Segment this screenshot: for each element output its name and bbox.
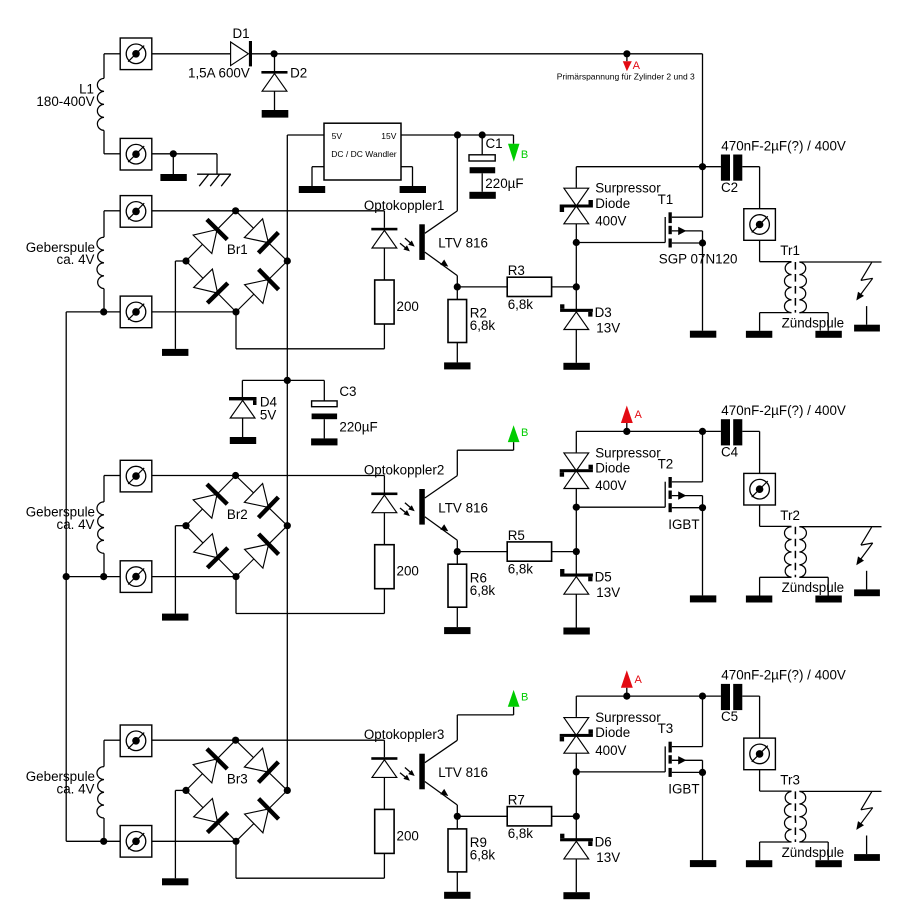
wire R5 right [552,551,577,553]
wire D2 to ground [274,91,276,110]
wire emitter T2 to ground [702,508,704,596]
svg-text:ca. 4V: ca. 4V [57,517,95,532]
connector L1 bottom [120,138,152,170]
transformer Tr1 secondary [799,262,806,313]
ground D3 [563,363,589,370]
svg-text:400V: 400V [595,213,626,228]
label D3 13V [595,305,621,336]
junction L1 ground [170,150,177,157]
wire Br3 bottom node to resistor 200 [236,841,384,878]
svg-text:D1: D1 [233,26,250,41]
node A marker [621,406,643,432]
svg-text:Br3: Br3 [227,772,248,787]
junction emitter T1 [699,239,706,246]
wire Tr3 primary to ground [760,842,792,860]
wire rail to D4 [242,380,287,397]
IGBT T2 [665,477,702,512]
DC/DC converter U1 [324,123,401,180]
LED Optokoppler2 [371,493,397,496]
wire D5 to ground [575,594,577,627]
svg-text:T1: T1 [658,192,674,207]
transformer Tr2 primary [784,527,791,578]
wire C4 to connector [742,431,759,473]
svg-text:6,8k: 6,8k [508,297,534,312]
wire gate T2 [576,506,665,508]
inductor L1 [97,78,104,130]
capacitor C4 [721,419,742,445]
wire rail to DC/DC [287,134,324,136]
wire C5 to connector [742,696,759,738]
wire drain T2 [702,431,704,482]
wire drain T3 [702,696,704,747]
wire node C4 [576,430,721,432]
wire rail to C3 [287,380,324,401]
wire Geberspule Br2 bottom lead [103,553,105,576]
ground Br3 minus [162,878,188,885]
wire Tr1 secondary top [799,261,881,263]
wire LED cathode Optokoppler3 [383,777,385,809]
label C3 220µF [339,384,377,434]
wire connector to D1 [152,53,231,55]
wire emitter Optokoppler1 [425,252,458,287]
svg-text:200: 200 [397,299,419,314]
label 470nF C5 [721,668,846,725]
wire Geberspule Br1 top-left [104,211,120,237]
svg-text:Primärspannung für Zylinder 2: Primärspannung für Zylinder 2 und 3 [557,72,695,82]
suppressor diode [564,718,589,736]
label 470nF C4 [721,403,846,460]
svg-text:ca. 4V: ca. 4V [57,782,95,797]
wire rail D3 [575,287,577,310]
wire rail D5 [575,552,577,575]
svg-text:Br2: Br2 [227,507,248,522]
phototransistor Optokoppler2 [419,489,425,525]
transformer Tr3 core [794,791,796,842]
wire gate T1 [576,242,665,244]
junction 15V collector [454,131,461,138]
wire LED lead Optokoppler3 [383,740,385,757]
svg-text:5V: 5V [332,131,343,141]
junction emitter Optokoppler2 [454,548,461,555]
transformer Tr3 primary [784,791,791,842]
resistor 200 Optokoppler2 [375,545,394,589]
ground Tr2 primary [746,596,772,603]
svg-text:C3: C3 [339,384,356,399]
svg-text:D3: D3 [595,305,612,320]
wire L1 top-left [104,54,120,79]
label L1 180-400V [36,81,94,108]
connector Br3 top [120,725,152,757]
wire Geberspule Br3 bottom lead [103,818,105,841]
svg-text:200: 200 [397,828,419,843]
label Surpressor Diode 400V [595,710,661,758]
spark symbol [856,527,872,565]
transformer Tr2 secondary [799,527,806,578]
ground Tr1 secondary [815,331,841,338]
label R2 6,8k [470,306,496,334]
ground Tr1 primary [746,331,772,338]
wire connector to Tr1 [760,240,792,261]
capacitor C1 [469,135,495,192]
svg-text:Surpressor: Surpressor [595,710,661,725]
svg-text:Tr3: Tr3 [780,773,800,788]
wire 15V output [401,134,514,136]
svg-text:400V: 400V [595,743,626,758]
capacitor C2 [721,155,742,181]
junction drain C4 [699,428,706,435]
connector Br2 bottom [120,561,152,593]
label R6 6,8k [470,570,496,598]
svg-text:LTV 816: LTV 816 [438,765,488,780]
wire drain T1 [702,167,704,218]
svg-text:5V: 5V [260,408,276,423]
connector Tr3 [744,738,776,770]
label C1 220µF [485,136,523,191]
wire Tr3 secondary to ground [799,842,828,860]
svg-text:200: 200 [397,564,419,579]
svg-text:C2: C2 [721,180,738,195]
wire LED lead Optokoppler2 [383,476,385,493]
junction Geberspule Br2 bottom [100,573,107,580]
label D5 13V [595,570,621,601]
diode D1 [231,41,252,66]
labels DC/DC [331,131,397,159]
svg-text:Diode: Diode [595,196,630,211]
node B marker [508,425,529,442]
svg-text:Optokoppler2: Optokoppler2 [364,463,444,478]
svg-text:6,8k: 6,8k [470,318,496,333]
svg-text:6,8k: 6,8k [470,583,496,598]
svg-text:Surpressor: Surpressor [595,181,661,196]
ground T2 [690,595,716,602]
junction node A [623,693,630,700]
svg-text:C1: C1 [486,136,503,151]
junction node A [623,428,630,435]
wire DC/DC left leg [312,167,324,186]
wire LED anode Optokoppler3 [236,739,385,741]
svg-text:R7: R7 [508,793,525,808]
node B marker row1 [508,135,528,162]
label R7 6,8k [508,793,534,842]
ground Tr3 secondary [815,860,841,867]
junction drain C2 [699,163,706,170]
IGBT T3 [665,742,702,777]
wire node C2 [576,166,721,168]
svg-text:IGBT: IGBT [668,782,699,797]
ground D6 [563,892,589,899]
ground D5 [563,628,589,635]
suppressor diode [564,188,589,206]
svg-text:Surpressor: Surpressor [595,445,661,460]
wire Br1 minus to ground [175,261,186,349]
diode D2 [261,71,287,74]
wire Br1 input bottom [152,311,236,313]
wire D6 to ground [575,859,577,892]
svg-text:180-400V: 180-400V [36,94,94,109]
ground D4 [230,437,256,444]
label D6 13V [595,834,621,865]
svg-text:13V: 13V [596,850,620,865]
svg-text:Optokoppler3: Optokoppler3 [364,727,444,742]
svg-text:400V: 400V [595,478,626,493]
resistor R5 [507,542,551,561]
wire spark gap to ground [866,571,868,590]
wire collector to node B [457,707,513,741]
wire Tr1 secondary to ground [799,313,828,331]
label Geberspule Br1 [26,240,95,267]
wire D4 to ground [242,418,244,437]
wire Geberspule Br2 top-left [104,476,120,502]
ground T3 [690,860,716,867]
ground L1 [160,174,186,181]
resistor R2 [448,287,467,363]
label R5 6,8k [508,528,534,577]
junction Br1 nodes [182,207,291,315]
bridge rectifier Br2 [186,476,287,577]
wire emitter Optokoppler3 [425,782,458,817]
svg-text:B: B [521,149,528,161]
wire junction to ground [172,154,174,174]
transformer Tr1 core [794,262,796,313]
label Geberspule Br3 [26,769,95,796]
ground R9 [444,892,470,899]
inductor Geberspule Br1 [97,237,104,288]
wire suppressor rail [575,167,577,287]
junction rail D4-C3 [284,377,291,384]
svg-text:15V: 15V [381,131,396,141]
junction Geberspule Br3 bottom [100,838,107,845]
bridge rectifier Br1 [186,211,287,312]
wire LED anode Optokoppler2 [236,475,385,477]
junction D1-D2 [271,50,278,57]
wire Br2 input top [152,475,236,477]
resistor R7 [507,807,551,826]
wire DC/DC right leg [401,167,413,186]
wire Br2 input bottom [152,576,236,578]
junction suppressor-gate [573,768,580,775]
svg-text:T2: T2 [658,457,674,472]
svg-text:A: A [633,60,641,72]
wire Tr2 primary to ground [760,577,792,595]
svg-text:R5: R5 [508,528,525,543]
svg-text:D2: D2 [290,66,307,81]
ground DC/DC right [400,186,426,193]
label Surpressor Diode 400V [595,445,661,493]
ground T1 [690,331,716,338]
wire 5V rail [286,135,288,791]
junction emitter T2 [699,504,706,511]
ground R2 [444,362,470,369]
ground spark gap [854,325,880,332]
bridge rectifier Br3 [186,740,287,841]
ground Tr2 secondary [815,596,841,603]
resistor R6 [448,552,467,628]
wire Tr1 primary to ground [760,313,792,331]
junction node A primary [623,50,630,57]
label R9 6,8k [470,835,496,863]
junction emitter Optokoppler3 [454,813,461,820]
light arrows [400,503,415,516]
wire emitter T1 to ground [702,243,704,331]
wire emitter T3 to ground [702,772,704,860]
connector Br1 top [120,196,152,228]
zener diode D4 [229,397,257,400]
svg-text:Zündspule: Zündspule [782,315,845,330]
wire suppressor rail [575,696,577,816]
connector Tr1 [744,209,776,241]
resistor 200 Optokoppler3 [375,809,394,853]
svg-text:ca. 4V: ca. 4V [57,252,95,267]
node A marker [621,670,643,696]
wire LED lead Optokoppler1 [383,211,385,228]
svg-text:Diode: Diode [595,461,630,476]
wire Br1 bottom node to resistor 200 [236,312,384,349]
wire D1 to top rail [252,53,703,55]
zener diode D6 [560,838,593,841]
wire LED cathode Optokoppler1 [383,248,385,280]
svg-text:B: B [521,427,528,439]
svg-text:Tr2: Tr2 [780,508,800,523]
wire R7 right [552,815,577,817]
ground Br2 minus [162,614,188,621]
phototransistor Optokoppler3 [419,754,425,790]
chassis ground [197,174,231,186]
IGBT T1 [665,212,702,247]
light arrows [400,238,415,251]
svg-text:13V: 13V [596,585,620,600]
phototransistor Optokoppler1 [419,224,425,260]
svg-text:LTV 816: LTV 816 [438,500,488,515]
wire C2 to connector [742,167,759,209]
ground C3 [311,438,337,445]
wire Geberspule Br1 bottom lead [103,289,105,312]
wire gate T3 [576,771,665,773]
LED Optokoppler3 [371,757,397,760]
label Geberspule Br2 [26,505,95,532]
svg-text:6,8k: 6,8k [508,826,534,841]
svg-text:B: B [521,692,528,704]
node A marker row1 [623,54,641,72]
wire collector Optokoppler1 [425,211,458,233]
inductor Geberspule Br3 [97,767,104,818]
wire emitter Optokoppler2 [425,517,458,552]
connector L1 top [120,38,152,70]
svg-text:13V: 13V [596,321,620,336]
wire R3 right [552,286,577,288]
svg-text:Br1: Br1 [227,242,248,257]
label D4 5V [260,394,278,422]
svg-text:Zündspule: Zündspule [782,845,845,860]
LED Optokoppler1 [371,228,397,231]
junction emitter T3 [699,769,706,776]
wire rail D6 [575,816,577,839]
junction Geberspule Br1 bottom [100,308,107,315]
wire Br1 input top [152,210,236,212]
spark symbol [856,792,872,830]
svg-text:C4: C4 [721,445,739,460]
wire LED anode Optokoppler1 [236,210,385,212]
resistor R3 wire left [457,286,507,288]
inductor Geberspule Br2 [97,502,104,553]
wire Br2 bottom node to resistor 200 [236,577,384,614]
ground spark gap [854,854,880,861]
junction drain C5 [699,693,706,700]
label Surpressor Diode 400V [595,181,661,229]
junction bus row2 [63,573,70,580]
resistor 200 Optokoppler1 [375,280,394,324]
wire collector Optokoppler2 [425,476,458,498]
svg-text:470nF-2µF(?) / 400V: 470nF-2µF(?) / 400V [721,138,846,153]
svg-text:220µF: 220µF [485,176,523,191]
label R3 6,8k [508,263,534,312]
junction R7-D6 [573,813,580,820]
svg-text:A: A [635,409,643,421]
wire D3 to ground [575,330,577,363]
wire L1 bottom to chassis [152,154,217,174]
node B marker [508,690,529,707]
ground R6 [444,627,470,634]
wire collector Optokoppler3 [425,740,458,762]
ground Tr3 primary [746,860,772,867]
wire Tr2 secondary top [799,526,881,528]
svg-text:Tr1: Tr1 [780,243,800,258]
transformer Tr1 primary [784,262,791,313]
svg-text:470nF-2µF(?) / 400V: 470nF-2µF(?) / 400V [721,403,846,418]
connector Br1 bottom [120,296,152,328]
zener diode D3 [560,309,593,312]
svg-text:Zündspule: Zündspule [782,580,845,595]
wire collector to node B [457,442,513,476]
wire spark gap to ground [866,306,868,325]
wire Tr3 secondary top [799,790,881,792]
wire suppressor rail [575,431,577,551]
transformer Tr2 core [794,527,796,578]
connector Br2 top [120,460,152,492]
wire connector to Tr3 [760,770,792,791]
light arrows [400,768,415,781]
svg-text:IGBT: IGBT [668,517,699,532]
wire 15V to Optokoppler1 collector [456,135,458,211]
capacitor C3 [312,401,338,439]
suppressor diode [564,453,589,471]
resistor R3 [507,277,551,296]
svg-text:LTV 816: LTV 816 [438,236,488,251]
wire Br3 minus to ground [175,790,186,878]
svg-text:Diode: Diode [595,725,630,740]
wire connector to Tr2 [760,505,792,526]
ground C1 [469,192,495,199]
svg-text:SGP 07N120: SGP 07N120 [659,252,738,267]
svg-text:R3: R3 [508,263,525,278]
ground spark gap [854,589,880,596]
zener diode D5 [560,574,593,577]
ground Br1 minus [162,349,188,356]
svg-text:1,5A 600V: 1,5A 600V [188,66,250,81]
svg-text:DC / DC Wandler: DC / DC Wandler [331,149,397,159]
wire spark gap to ground [866,836,868,855]
ground D2 [262,110,289,118]
label 470nF C2 [721,138,846,195]
wire Br3 input bottom [152,840,236,842]
junction emitter Optokoppler1 [454,283,461,290]
svg-text:220µF: 220µF [339,420,377,435]
svg-text:T3: T3 [658,721,674,736]
svg-text:Optokoppler1: Optokoppler1 [364,198,444,213]
svg-text:D6: D6 [595,834,612,849]
junction suppressor-gate [573,504,580,511]
transformer Tr3 secondary [799,791,806,842]
ground DC/DC left [299,186,325,193]
